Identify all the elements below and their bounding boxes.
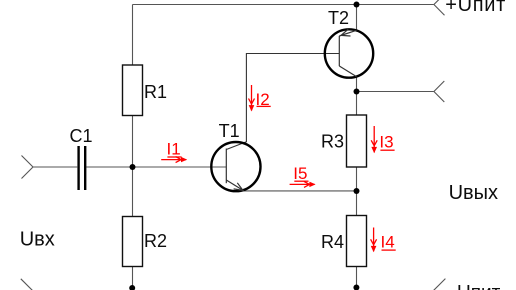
svg-text:R1: R1 [144,82,167,102]
svg-text:I4: I4 [381,233,395,252]
svg-text:R3: R3 [321,132,344,152]
svg-text:R4: R4 [321,232,344,252]
svg-text:T1: T1 [219,121,240,141]
svg-text:Uвых: Uвых [449,182,498,204]
svg-text:T2: T2 [328,8,349,28]
svg-text:+Uпит: +Uпит [445,0,506,16]
svg-text:R2: R2 [144,231,167,251]
svg-text:C1: C1 [70,126,93,146]
svg-text:Uвх: Uвх [20,229,55,251]
svg-text:I1: I1 [167,140,181,159]
svg-text:I5: I5 [293,164,307,183]
svg-text:I3: I3 [379,132,393,151]
svg-text:Uпит: Uпит [457,282,501,290]
